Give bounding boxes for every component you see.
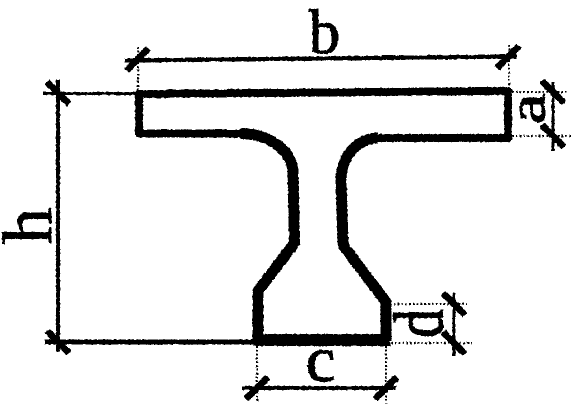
extension line b left (137, 47, 139, 90)
svg-text:d: d (380, 309, 458, 338)
svg-text:c: c (306, 324, 336, 396)
svg-text:h: h (0, 208, 67, 244)
svg-text:a: a (499, 93, 556, 124)
tick d top (443, 293, 465, 315)
tick b left (127, 49, 149, 71)
extension line h bottom (45, 340, 256, 345)
dimension line b (125, 57, 517, 61)
T-beam web right side (341, 138, 386, 341)
extension line b right (508, 45, 510, 88)
tick c left (246, 377, 268, 399)
extension line c left (256, 346, 258, 401)
extension line c right (385, 346, 387, 404)
extension line d bottom (391, 342, 472, 344)
tick b right (497, 46, 519, 68)
tick h top (47, 82, 69, 104)
dimension line c (242, 386, 396, 390)
tick a top (542, 81, 564, 103)
dimension line d (452, 293, 455, 356)
dimension line h (56, 80, 60, 353)
dimension line a (551, 82, 554, 151)
tick h bottom (47, 331, 69, 353)
T-beam flange outline (139, 91, 508, 138)
T-beam stem bottom edge (254, 334, 391, 346)
tick a bottom (542, 125, 564, 147)
extension line a bottom (512, 135, 572, 137)
extension line a top (512, 91, 568, 93)
extension line d top (390, 303, 467, 305)
svg-text:b: b (309, 0, 340, 67)
tick d bottom (443, 332, 465, 354)
T-beam web left side (240, 134, 295, 342)
extension line h top (43, 92, 136, 95)
tick c right (375, 377, 397, 399)
